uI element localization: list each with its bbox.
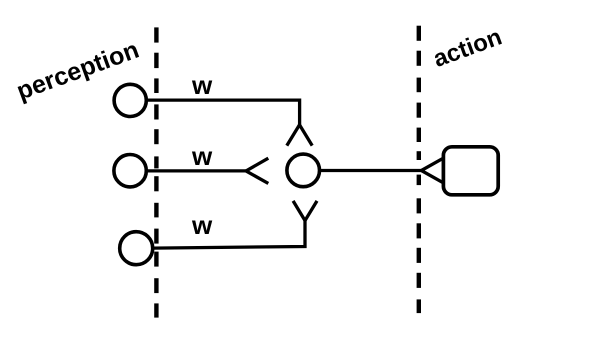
neuron circle N: [287, 154, 320, 187]
sensor circle S3: [120, 232, 153, 265]
synapse fork bottom: [293, 201, 317, 221]
wire neuron to actuator: [320, 169, 422, 172]
wire S2 to middle synapse: [146, 169, 246, 172]
dashed boundary line right: [417, 26, 421, 313]
actuator box: [443, 147, 498, 195]
wire S3 to bottom synapse: [153, 221, 305, 249]
svg-text:w: w: [191, 210, 213, 240]
synapse fork middle: [246, 158, 268, 183]
svg-text:w: w: [191, 141, 213, 171]
actuator input triangle: [421, 159, 442, 183]
dashed boundary line left: [154, 27, 158, 317]
sensor circle S2: [114, 155, 146, 187]
sensor circle S1: [114, 84, 146, 116]
wire S1 to top synapse: [146, 100, 299, 125]
svg-text:w: w: [191, 70, 213, 100]
synapse fork top: [287, 125, 312, 146]
